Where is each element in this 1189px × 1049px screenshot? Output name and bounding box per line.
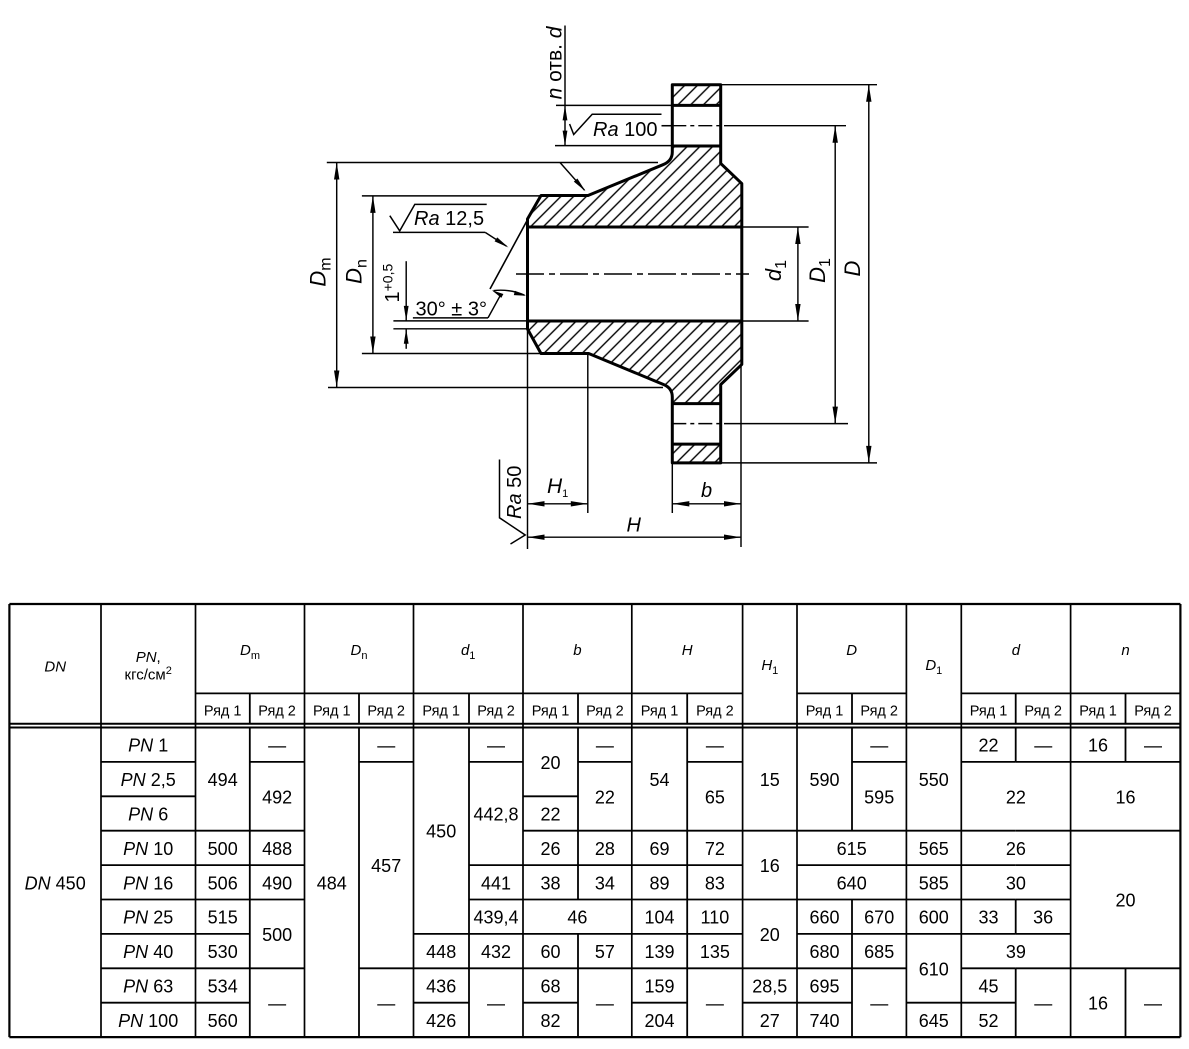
table column n bbox=[1088, 736, 1162, 1014]
svg-text:PN 25: PN 25 bbox=[123, 908, 173, 928]
svg-text:DN 450: DN 450 bbox=[25, 873, 86, 893]
svg-text:494: 494 bbox=[208, 770, 238, 790]
hatched section main upper flange/hub body bbox=[528, 146, 742, 227]
svg-text:Ряд 1: Ряд 1 bbox=[313, 704, 351, 720]
table column H bbox=[644, 736, 729, 1031]
svg-text:60: 60 bbox=[540, 942, 560, 962]
svg-text:PN 63: PN 63 bbox=[123, 977, 173, 997]
svg-text:500: 500 bbox=[208, 839, 238, 859]
dimension H bbox=[528, 515, 742, 540]
svg-text:89: 89 bbox=[649, 873, 669, 893]
svg-text:610: 610 bbox=[919, 959, 949, 979]
svg-text:PN,: PN, bbox=[136, 649, 161, 666]
svg-text:442,8: 442,8 bbox=[473, 805, 518, 825]
svg-text:500: 500 bbox=[262, 925, 292, 945]
svg-text:22: 22 bbox=[595, 787, 615, 807]
svg-text:34: 34 bbox=[595, 873, 615, 893]
svg-text:52: 52 bbox=[978, 1011, 998, 1031]
svg-text:H: H bbox=[627, 515, 642, 537]
dimension b bbox=[672, 480, 741, 507]
svg-text:506: 506 bbox=[208, 873, 238, 893]
dimension 1+0,5 weld land bbox=[380, 261, 528, 349]
svg-text:Ra 50: Ra 50 bbox=[504, 466, 526, 519]
svg-text:Ряд 2: Ряд 2 bbox=[696, 704, 734, 720]
svg-text:426: 426 bbox=[426, 1011, 456, 1031]
dimension D1 bolt circle bbox=[805, 126, 838, 424]
svg-text:—: — bbox=[268, 736, 286, 756]
hatched section main lower flange/hub body bbox=[528, 321, 742, 404]
svg-text:660: 660 bbox=[809, 908, 839, 928]
svg-text:645: 645 bbox=[919, 1011, 949, 1031]
svg-text:Ряд 1: Ряд 1 bbox=[532, 704, 570, 720]
svg-text:22: 22 bbox=[1006, 787, 1026, 807]
svg-text:534: 534 bbox=[208, 977, 238, 997]
svg-text:—: — bbox=[1144, 994, 1162, 1014]
svg-text:PN 2,5: PN 2,5 bbox=[121, 770, 176, 790]
svg-text:560: 560 bbox=[208, 1011, 238, 1031]
lower bolt hole edges bbox=[672, 402, 720, 405]
lower bolt hole centerline bbox=[672, 423, 724, 425]
svg-text:530: 530 bbox=[208, 942, 238, 962]
dimension n otv d bolt holes bbox=[544, 25, 673, 145]
svg-text:D: D bbox=[840, 260, 865, 276]
dimension D outer diameter bbox=[721, 85, 877, 463]
svg-text:Ряд 2: Ряд 2 bbox=[860, 704, 898, 720]
svg-text:45: 45 bbox=[978, 977, 998, 997]
svg-text:PN 1: PN 1 bbox=[128, 736, 168, 756]
svg-text:57: 57 bbox=[595, 942, 615, 962]
svg-text:38: 38 bbox=[540, 873, 560, 893]
svg-text:—: — bbox=[487, 736, 505, 756]
svg-text:135: 135 bbox=[700, 942, 730, 962]
svg-text:740: 740 bbox=[809, 1011, 839, 1031]
svg-text:139: 139 bbox=[644, 942, 674, 962]
svg-text:448: 448 bbox=[426, 942, 456, 962]
svg-text:Ряд 1: Ряд 1 bbox=[970, 704, 1008, 720]
svg-text:D: D bbox=[846, 642, 857, 659]
hatched section lower bolt ring cap bbox=[672, 444, 720, 463]
table column DN PN bbox=[25, 736, 179, 1031]
svg-text:b: b bbox=[701, 480, 712, 502]
svg-text:DN: DN bbox=[44, 659, 66, 676]
svg-text:46: 46 bbox=[567, 908, 587, 928]
surface finish Ra 100 bbox=[570, 114, 673, 141]
svg-text:439,4: 439,4 bbox=[473, 908, 518, 928]
svg-text:680: 680 bbox=[809, 942, 839, 962]
upper bolt hole centerline bbox=[662, 125, 673, 127]
svg-text:22: 22 bbox=[978, 736, 998, 756]
svg-text:39: 39 bbox=[1006, 942, 1026, 962]
weld bevel construction line bbox=[490, 220, 528, 289]
svg-text:550: 550 bbox=[919, 770, 949, 790]
table column d bbox=[978, 736, 1053, 1031]
svg-text:72: 72 bbox=[705, 839, 725, 859]
svg-text:640: 640 bbox=[837, 873, 867, 893]
svg-text:26: 26 bbox=[1006, 839, 1026, 859]
svg-text:PN 6: PN 6 bbox=[128, 805, 168, 825]
svg-text:615: 615 bbox=[837, 839, 867, 859]
svg-text:110: 110 bbox=[701, 908, 730, 928]
svg-text:432: 432 bbox=[481, 942, 511, 962]
extension lines below flange bbox=[527, 330, 529, 549]
svg-text:Ряд 1: Ряд 1 bbox=[641, 704, 679, 720]
dimension H1 bbox=[528, 475, 588, 507]
svg-text:—: — bbox=[706, 736, 724, 756]
svg-text:H: H bbox=[682, 642, 693, 659]
hatched section upper bolt ring cap bbox=[672, 85, 720, 106]
dimension Dm bbox=[306, 163, 664, 388]
svg-text:159: 159 bbox=[644, 977, 674, 997]
svg-text:Ряд 2: Ряд 2 bbox=[1024, 704, 1062, 720]
svg-text:20: 20 bbox=[760, 925, 780, 945]
svg-text:488: 488 bbox=[262, 839, 292, 859]
surface finish Ra 50 end face bbox=[500, 460, 527, 545]
svg-text:n: n bbox=[1121, 642, 1129, 659]
svg-text:457: 457 bbox=[371, 856, 401, 876]
svg-text:565: 565 bbox=[919, 839, 949, 859]
svg-text:83: 83 bbox=[705, 873, 725, 893]
svg-text:PN 100: PN 100 bbox=[118, 1011, 178, 1031]
svg-text:65: 65 bbox=[705, 787, 725, 807]
svg-text:15: 15 bbox=[760, 770, 780, 790]
svg-text:441: 441 bbox=[481, 873, 511, 893]
svg-text:Ra 12,5: Ra 12,5 bbox=[414, 208, 484, 230]
svg-text:36: 36 bbox=[1033, 908, 1053, 928]
svg-text:кгс/см2: кгс/см2 bbox=[125, 665, 172, 684]
svg-text:Ряд 2: Ряд 2 bbox=[1134, 704, 1172, 720]
svg-text:Ряд 2: Ряд 2 bbox=[367, 704, 405, 720]
svg-text:492: 492 bbox=[262, 787, 292, 807]
upper bolt hole edges bbox=[672, 104, 720, 107]
svg-text:Ряд 2: Ряд 2 bbox=[477, 704, 515, 720]
svg-text:—: — bbox=[268, 994, 286, 1014]
svg-text:600: 600 bbox=[919, 908, 949, 928]
svg-text:—: — bbox=[706, 994, 724, 1014]
svg-text:Ряд 1: Ряд 1 bbox=[1079, 704, 1117, 720]
svg-text:Ряд 2: Ряд 2 bbox=[258, 704, 296, 720]
svg-text:Ra 100: Ra 100 bbox=[593, 119, 658, 141]
svg-text:670: 670 bbox=[864, 908, 894, 928]
svg-text:515: 515 bbox=[208, 908, 238, 928]
table header labels bbox=[44, 642, 1171, 720]
svg-text:104: 104 bbox=[644, 908, 674, 928]
surface finish Ra 12,5 bbox=[390, 204, 509, 247]
dimension Dn bbox=[342, 196, 542, 354]
svg-text:—: — bbox=[596, 994, 614, 1014]
svg-text:—: — bbox=[1034, 736, 1052, 756]
svg-text:695: 695 bbox=[809, 977, 839, 997]
svg-text:436: 436 bbox=[426, 977, 456, 997]
svg-text:585: 585 bbox=[919, 873, 949, 893]
svg-text:30: 30 bbox=[1006, 873, 1026, 893]
svg-text:54: 54 bbox=[649, 770, 669, 790]
svg-text:—: — bbox=[1034, 994, 1052, 1014]
angle label 30 deg bbox=[413, 290, 526, 320]
svg-text:595: 595 bbox=[864, 787, 894, 807]
svg-text:490: 490 bbox=[262, 873, 292, 893]
svg-text:68: 68 bbox=[540, 977, 560, 997]
svg-text:16: 16 bbox=[1088, 994, 1108, 1014]
table column b bbox=[540, 736, 614, 1031]
svg-text:—: — bbox=[870, 736, 888, 756]
table column D bbox=[809, 736, 894, 1031]
svg-text:—: — bbox=[1144, 736, 1162, 756]
svg-text:27: 27 bbox=[760, 1011, 780, 1031]
svg-text:204: 204 bbox=[644, 1011, 674, 1031]
table column H1 bbox=[752, 770, 787, 1031]
svg-text:—: — bbox=[377, 736, 395, 756]
svg-text:Ряд 1: Ряд 1 bbox=[806, 704, 844, 720]
svg-text:26: 26 bbox=[540, 839, 560, 859]
svg-text:16: 16 bbox=[1088, 736, 1108, 756]
main axis centerline bbox=[516, 273, 749, 275]
svg-text:Ряд 1: Ряд 1 bbox=[422, 704, 460, 720]
svg-text:16: 16 bbox=[1115, 787, 1135, 807]
svg-text:Ряд 2: Ряд 2 bbox=[586, 704, 624, 720]
svg-text:b: b bbox=[573, 642, 581, 659]
svg-text:28: 28 bbox=[595, 839, 615, 859]
svg-text:d: d bbox=[1012, 642, 1021, 659]
svg-text:PN 40: PN 40 bbox=[123, 942, 173, 962]
flange outer outline bbox=[528, 85, 742, 463]
svg-text:33: 33 bbox=[978, 908, 998, 928]
svg-text:450: 450 bbox=[426, 822, 456, 842]
svg-text:—: — bbox=[596, 736, 614, 756]
svg-text:16: 16 bbox=[760, 856, 780, 876]
bore wall top edge bbox=[528, 226, 742, 229]
svg-text:590: 590 bbox=[809, 770, 839, 790]
svg-text:PN 10: PN 10 bbox=[123, 839, 173, 859]
table column Dm bbox=[208, 736, 292, 1031]
table column Dn bbox=[317, 736, 401, 1014]
svg-text:n отв. d: n отв. d bbox=[544, 25, 567, 99]
svg-text:484: 484 bbox=[317, 873, 347, 893]
table column D1 bbox=[919, 770, 949, 1031]
svg-text:PN 16: PN 16 bbox=[123, 873, 173, 893]
dimension d1 bore bbox=[742, 227, 809, 321]
svg-text:—: — bbox=[870, 994, 888, 1014]
bore wall bottom edge bbox=[528, 320, 742, 323]
svg-text:20: 20 bbox=[540, 753, 560, 773]
svg-text:—: — bbox=[377, 994, 395, 1014]
svg-text:685: 685 bbox=[864, 942, 894, 962]
svg-text:28,5: 28,5 bbox=[752, 977, 787, 997]
svg-text:82: 82 bbox=[540, 1011, 560, 1031]
svg-text:69: 69 bbox=[649, 839, 669, 859]
svg-text:20: 20 bbox=[1115, 891, 1135, 911]
table grid bbox=[9, 604, 1180, 1037]
table column d1 bbox=[426, 736, 518, 1031]
svg-text:22: 22 bbox=[540, 805, 560, 825]
svg-text:—: — bbox=[487, 994, 505, 1014]
svg-text:Ряд 1: Ряд 1 bbox=[204, 704, 242, 720]
